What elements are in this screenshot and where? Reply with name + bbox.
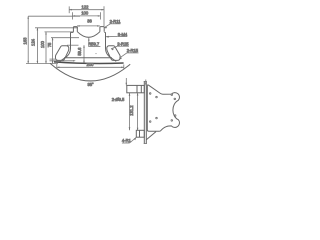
dimension 100 vertical: [45, 32, 47, 64]
leader with right arrow under leaf: [50, 60, 74, 62]
VESA plate hole 4: [174, 98, 176, 100]
extension line y31.9 for dim 100: [45, 31, 74, 33]
side view: box divider: [139, 130, 141, 137]
side view: arm divider 2: [140, 85, 142, 92]
side view: vertical plate edge-on: [144, 81, 147, 143]
VESA plate hole 8: [174, 115, 176, 117]
VESA plate hole 7: [171, 120, 173, 122]
bar right end leaf: [107, 46, 120, 61]
svg-text:2-R15: 2-R15: [127, 48, 139, 53]
hole center dot 1: [96, 53, 97, 54]
bracket top view outline: left tab: [73, 27, 77, 32]
dimension 36 between tabs: [77, 25, 100, 27]
neck right shoulder: [104, 31, 105, 33]
svg-text:131.2: 131.2: [129, 105, 134, 116]
svg-text:163: 163: [22, 37, 27, 45]
svg-text:100: 100: [40, 40, 45, 48]
bar left end leaf: [55, 46, 68, 61]
svg-text:59.6: 59.6: [77, 47, 82, 56]
neck left shoulder: [71, 31, 74, 33]
svg-text:2-R25: 2-R25: [117, 41, 129, 46]
extension line y27.8 for dim 124: [35, 27, 78, 29]
svg-text:2-Ø9.5: 2-Ø9.5: [112, 97, 125, 102]
VESA plate hole 3: [171, 94, 173, 96]
svg-text:200: 200: [87, 62, 95, 67]
dimension 124 vertical: [37, 28, 39, 64]
VESA plate hole 1: [149, 93, 151, 95]
dimension 75 vertical: [52, 38, 54, 64]
bracket top view outline: right tab: [100, 27, 104, 32]
swing arc 95 degrees: [50, 63, 130, 81]
hole center dot 2: [108, 54, 109, 55]
neck right edge with flare into bar: [106, 32, 117, 61]
svg-text:2-R11: 2-R11: [110, 19, 122, 24]
bar bottom edge (thick): [54, 62, 124, 64]
concave arc R59.7 between tabs: [77, 32, 100, 38]
extension line y16 for dim 163: [28, 15, 80, 17]
svg-text:100: 100: [81, 11, 89, 16]
baseline extension left: [26, 63, 58, 65]
svg-text:122: 122: [82, 4, 90, 9]
dimension 163 vertical: [27, 16, 29, 63]
bar top edge: [64, 57, 112, 59]
dimension 122 top: [69, 6, 104, 26]
side view: arm divider 1: [136, 85, 138, 92]
dimension 59.6 vertical: [83, 45, 85, 63]
svg-text:75: 75: [47, 42, 52, 47]
dimension 131.2 vertical: [137, 93, 139, 130]
svg-text:95°: 95°: [87, 82, 94, 87]
side view: top arm: [127, 85, 145, 92]
dimension whiskers above arm: [126, 78, 147, 85]
VESA star plate outline: [147, 85, 179, 131]
side view: bottom hook diagonal: [146, 132, 156, 140]
dimension 200: [57, 64, 124, 70]
svg-text:36: 36: [87, 19, 92, 24]
dimension 100 top: [73, 12, 101, 19]
dimension 2-diam-9.5 leader: [129, 93, 131, 130]
extension line y45.2 for dim 59.6: [67, 44, 79, 46]
svg-text:124: 124: [30, 38, 35, 46]
VESA plate hole 6: [156, 117, 158, 119]
side view: bottom box: [136, 130, 144, 137]
svg-text:8-M4: 8-M4: [118, 32, 128, 37]
VESA plate hole 5: [149, 121, 151, 123]
svg-text:R59.7: R59.7: [88, 42, 100, 47]
extension line y37.7 for dim 75: [51, 37, 79, 39]
VESA plate hole 2: [156, 96, 158, 98]
neck left edge with flare into bar: [60, 32, 71, 61]
